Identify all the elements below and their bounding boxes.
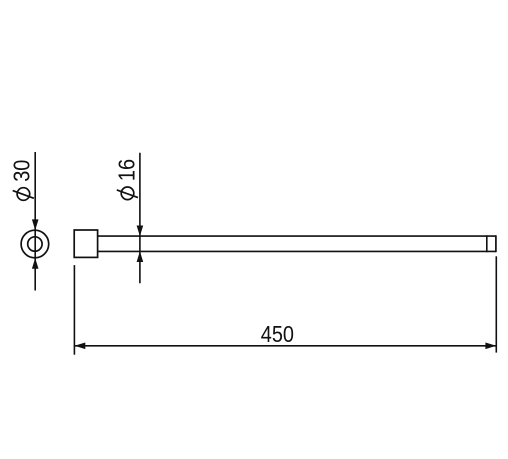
extension line right (450) (495, 256, 497, 352)
front view outer circle (Ø30) (21, 230, 49, 258)
arrowhead Ø16 top (pointing down) (137, 226, 144, 237)
arrowhead Ø16 bottom (pointing up) (137, 251, 144, 262)
dimension line 450 (74, 345, 496, 347)
svg-text:30: 30 (9, 160, 35, 182)
arrowhead 450 left (pointing left) (75, 343, 86, 350)
svg-text:450: 450 (261, 321, 294, 347)
extension line left (450) (73, 265, 75, 355)
dimension line for Ø16 (139, 153, 141, 283)
bar bottom line (98, 250, 496, 252)
arrowhead Ø30 top (pointing down) (32, 219, 39, 230)
bar top line (98, 235, 496, 237)
label Ø16 diameter symbol (117, 187, 138, 200)
bar end divider line (486, 235, 488, 252)
bar right end edge (495, 235, 497, 252)
front view inner circle (Ø16) (28, 237, 42, 251)
svg-text:16: 16 (114, 159, 140, 181)
arrowhead 450 right (pointing right) (485, 343, 496, 350)
label Ø30 diameter symbol (13, 188, 34, 201)
side view end cap rectangle (74, 230, 97, 257)
dimension line for Ø30 (34, 152, 36, 291)
arrowhead Ø30 bottom (pointing up) (32, 258, 39, 269)
